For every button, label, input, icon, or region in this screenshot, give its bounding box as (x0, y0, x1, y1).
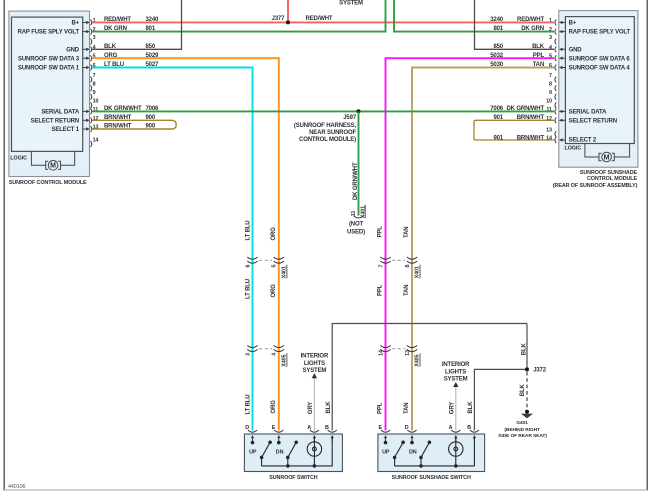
svg-text:NEAR SUNROOF: NEAR SUNROOF (309, 130, 356, 136)
svg-text:DK GRN/WHT: DK GRN/WHT (507, 106, 545, 112)
svg-text:11: 11 (351, 211, 357, 217)
switch S2 sunroof sunshade switch (378, 425, 485, 481)
sunshade control module pin numbers (546, 18, 552, 142)
wire BRN/WHT 900 jumper loop (left pin 12 SELECT RETURN to pin 13 SELECT 1) (92, 115, 176, 130)
svg-text:INTERIOR: INTERIOR (301, 353, 329, 359)
wire BLK vertical into J372 (521, 324, 527, 370)
svg-text:801: 801 (146, 26, 156, 32)
svg-text:SERIAL DATA: SERIAL DATA (569, 110, 608, 116)
svg-text:UP: UP (382, 450, 390, 456)
wire RED/WHT 3240 (B+ bus, left pin 1 to right pin 1) (92, 17, 554, 23)
sunroof control module pin arrows (83, 21, 90, 131)
svg-text:BLK: BLK (468, 401, 474, 414)
svg-text:RED/WHT: RED/WHT (517, 17, 544, 23)
svg-text:13: 13 (546, 127, 552, 133)
splice J377 (272, 16, 333, 24)
svg-text:LOGIC: LOGIC (565, 145, 582, 151)
wire TAN 5030 (right pin 6 SUNROOF SW DATA 4 down to sunshade switch pin D) (412, 62, 554, 430)
switch S1 sunroof switch UP contact and arm (251, 441, 272, 466)
wire BLK 850 right segment (from top down at x=474.5 to right pin 4) (475, 0, 555, 50)
svg-text:(NOT: (NOT (349, 222, 364, 228)
svg-text:LIGHTS: LIGHTS (445, 370, 466, 376)
svg-text:PPL: PPL (378, 226, 384, 238)
svg-text:8: 8 (93, 82, 96, 88)
connector X401 pin 11 (not used) (347, 205, 366, 236)
svg-text:9: 9 (93, 90, 96, 96)
svg-text:E: E (378, 425, 382, 431)
svg-text:SYSTEM: SYSTEM (303, 368, 327, 374)
connector X401 (pins 6,5) (245, 257, 287, 278)
svg-text:PPL: PPL (533, 53, 545, 59)
svg-text:5027: 5027 (146, 62, 160, 68)
svg-text:3240: 3240 (146, 17, 160, 23)
sunshade control module pins 1-14 (connector arcs) (555, 20, 556, 143)
svg-text:J597: J597 (343, 115, 357, 121)
svg-text:(SUNROOF HARNESS,: (SUNROOF HARNESS, (294, 123, 357, 129)
svg-text:SELECT 2: SELECT 2 (569, 138, 597, 144)
splice J597 (294, 109, 361, 142)
switch S1 sunroof switch (244, 425, 342, 481)
svg-text:M: M (604, 154, 610, 161)
svg-text:LIGHTS: LIGHTS (304, 361, 325, 367)
wire ORG 5029 (left pin 5 SUNROOF SW DATA 3 down to sunroof switch pin E) (92, 53, 279, 431)
svg-text:901: 901 (493, 115, 503, 121)
svg-text:7: 7 (549, 73, 552, 79)
svg-text:SYSTEM: SYSTEM (444, 377, 468, 383)
svg-text:10: 10 (546, 99, 552, 105)
svg-text:B: B (467, 425, 471, 431)
svg-text:BLK: BLK (104, 44, 117, 50)
svg-text:CONTROL MODULE: CONTROL MODULE (587, 176, 638, 182)
wire GRY to interior lights system (sunshade switch pin A) (442, 362, 470, 430)
svg-text:3: 3 (93, 35, 96, 41)
svg-text:SUNROOF CONTROL MODULE: SUNROOF CONTROL MODULE (9, 180, 87, 186)
connector X401 (pins 7,8) (378, 257, 420, 278)
svg-text:SIDE OF REAR SEAT): SIDE OF REAR SEAT) (498, 433, 547, 439)
svg-text:TAN: TAN (404, 227, 410, 238)
svg-text:B+: B+ (569, 21, 577, 27)
svg-text:3: 3 (549, 35, 552, 41)
svg-text:5032: 5032 (490, 53, 504, 59)
switch S1 sunroof switch DN contact and arm (277, 441, 298, 468)
svg-text:13: 13 (405, 350, 411, 356)
sunshade control module pin arrows (559, 21, 566, 142)
svg-text:GRY: GRY (308, 402, 314, 414)
svg-text:SUNROOF SWITCH: SUNROOF SWITCH (269, 475, 318, 481)
motor M1 (sunroof motor, in sunroof control module) (31, 151, 74, 170)
wire RED/WHT stub from J377 up to system (top of page) (287, 0, 289, 22)
svg-text:RAP FUSE SPLY VOLT: RAP FUSE SPLY VOLT (18, 30, 80, 36)
svg-text:DK GRN: DK GRN (104, 26, 127, 32)
sunroof sunshade control module U2 (553, 11, 638, 189)
wire BLK (sunroof switch pin B ground, up and over to J372) (326, 324, 527, 431)
svg-text:DK GRN: DK GRN (521, 26, 544, 32)
svg-text:DK GRN/WHT: DK GRN/WHT (353, 162, 359, 200)
wire GRY to interior lights system (sunroof switch pin A) (301, 353, 329, 430)
sunroof control module pin numbers (93, 18, 99, 143)
svg-text:TAN: TAN (404, 403, 410, 414)
svg-text:BRN/WHT: BRN/WHT (517, 135, 545, 141)
svg-text:BLK: BLK (326, 401, 332, 414)
svg-text:SYSTEM: SYSTEM (339, 0, 363, 6)
switch S1 sunroof switch internal ground bus (262, 437, 333, 466)
svg-text:(REAR OF SUNROOF ASSEMBLY): (REAR OF SUNROOF ASSEMBLY) (553, 183, 638, 189)
wire DK GRN/WHT 7006 serial data (left pin 11 to right pin 11) (92, 106, 554, 112)
svg-text:SUNROOF SW DATA 3: SUNROOF SW DATA 3 (18, 56, 80, 62)
svg-text:UP: UP (249, 450, 257, 456)
svg-text:SUNROOF SUNSHADE SWITCH: SUNROOF SUNSHADE SWITCH (392, 475, 471, 481)
svg-text:SERIAL DATA: SERIAL DATA (41, 110, 80, 116)
svg-text:SUNROOF SW DATA 1: SUNROOF SW DATA 1 (18, 66, 80, 72)
svg-text:RED/WHT: RED/WHT (104, 17, 131, 23)
connector X405 (pins 14,13) (378, 345, 420, 366)
svg-text:BRN/WHT: BRN/WHT (104, 124, 132, 130)
svg-text:B+: B+ (71, 21, 79, 27)
svg-text:PPL: PPL (378, 402, 384, 414)
svg-text:SELECT RETURN: SELECT RETURN (569, 118, 617, 124)
sunroof control module U1 (9, 11, 90, 186)
svg-text:3: 3 (245, 353, 251, 356)
svg-text:RED/WHT: RED/WHT (306, 16, 333, 22)
switch S2 sunroof sunshade switch illumination lamp (449, 437, 463, 468)
splice J372 (525, 367, 547, 373)
wire LT BLU 5027 (left pin 6 SUNROOF SW DATA 1 down to sunroof switch pin D) (92, 62, 252, 430)
svg-text:INTERIOR: INTERIOR (442, 362, 470, 368)
svg-text:J372: J372 (533, 368, 547, 374)
wire DK GRN 801 left segment (left pin 2, up at x=385.5 to top) (92, 0, 385, 32)
svg-text:801: 801 (493, 26, 503, 32)
svg-text:10: 10 (93, 99, 99, 105)
svg-text:G401: G401 (516, 420, 528, 426)
switch S2 sunroof sunshade switch UP contact and arm (384, 441, 405, 466)
wire DK GRN/WHT drop from J597 to X401 pin 11 (not used) (353, 111, 359, 215)
switch S1 sunroof switch illumination lamp (307, 437, 321, 468)
svg-text:E: E (272, 425, 276, 431)
svg-text:USED): USED) (347, 229, 365, 235)
svg-text:5030: 5030 (490, 62, 504, 68)
svg-text:LT BLU: LT BLU (246, 279, 252, 299)
svg-text:7006: 7006 (146, 106, 160, 112)
svg-text:J377: J377 (272, 16, 286, 22)
svg-text:ORG: ORG (271, 400, 277, 414)
svg-text:TAN: TAN (533, 62, 544, 68)
svg-text:LT BLU: LT BLU (246, 395, 252, 415)
svg-text:GRY: GRY (449, 402, 455, 414)
svg-text:5: 5 (272, 265, 278, 268)
svg-text:BLK: BLK (521, 343, 527, 356)
connector X405 (pins 3,4) (245, 345, 287, 366)
svg-text:4: 4 (272, 353, 278, 356)
svg-text:DN: DN (409, 450, 417, 456)
svg-text:440106: 440106 (8, 484, 25, 490)
svg-text:ORG: ORG (104, 53, 118, 59)
svg-text:3240: 3240 (490, 17, 504, 23)
svg-text:14: 14 (378, 350, 384, 356)
svg-text:BRN/WHT: BRN/WHT (104, 115, 132, 121)
switch S2 sunroof sunshade switch DN contact and arm (410, 441, 431, 468)
wire BLK 850 left segment (left pin 4 GND, up at x=181.5 to top) (92, 0, 181, 50)
ground G401 (498, 410, 547, 440)
svg-text:5029: 5029 (146, 53, 160, 59)
svg-text:850: 850 (493, 44, 503, 50)
svg-text:(BEHIND RIGHT: (BEHIND RIGHT (504, 427, 540, 433)
svg-text:901: 901 (493, 135, 503, 141)
svg-text:7: 7 (93, 73, 96, 79)
svg-text:14: 14 (93, 137, 99, 143)
svg-text:9: 9 (549, 90, 552, 96)
svg-text:D: D (405, 425, 409, 431)
svg-text:A: A (449, 425, 453, 431)
svg-text:RAP FUSE SPLY VOLT: RAP FUSE SPLY VOLT (569, 30, 631, 36)
sunroof control module pins 1-14 (connector arcs) (91, 20, 92, 147)
svg-text:A: A (307, 425, 311, 431)
svg-text:8: 8 (405, 265, 411, 268)
svg-text:DK GRN/WHT: DK GRN/WHT (104, 106, 142, 112)
svg-text:BRN/WHT: BRN/WHT (517, 115, 545, 121)
svg-text:SUNROOF SW DATA 6: SUNROOF SW DATA 6 (569, 56, 631, 62)
svg-text:ORG: ORG (271, 227, 277, 241)
svg-text:B: B (325, 425, 329, 431)
svg-text:SELECT 1: SELECT 1 (52, 127, 80, 133)
wire DK GRN 801 right segment (from top down at x=394 to right pin 2) (394, 0, 554, 32)
svg-text:BLK: BLK (520, 384, 526, 397)
svg-text:8: 8 (549, 82, 552, 88)
svg-text:7006: 7006 (490, 106, 504, 112)
svg-text:LT BLU: LT BLU (246, 221, 252, 241)
svg-text:GND: GND (66, 47, 80, 53)
svg-text:LOGIC: LOGIC (10, 156, 27, 162)
svg-text:TAN: TAN (404, 285, 410, 296)
svg-text:LT BLU: LT BLU (104, 62, 124, 68)
svg-text:CONTROL MODULE): CONTROL MODULE) (299, 137, 356, 143)
svg-text:BLK: BLK (532, 44, 545, 50)
svg-text:7: 7 (378, 265, 384, 268)
svg-text:ORG: ORG (271, 284, 277, 298)
wire PPL 5032 (right pin 5 SUNROOF SW DATA 6 down to sunshade switch pin E) (386, 53, 555, 431)
svg-text:6: 6 (245, 265, 251, 268)
wire BRN/WHT 901 jumper loop (right pin 12 SELECT RETURN to pin 14 SELECT 2) (474, 115, 554, 141)
svg-text:M: M (50, 163, 56, 170)
svg-text:D: D (245, 425, 249, 431)
svg-text:SUNROOF SW DATA 4: SUNROOF SW DATA 4 (569, 66, 631, 72)
svg-text:SELECT RETURN: SELECT RETURN (31, 118, 79, 124)
svg-text:900: 900 (146, 115, 156, 121)
svg-text:GND: GND (569, 47, 583, 53)
svg-text:PPL: PPL (378, 284, 384, 296)
svg-text:DN: DN (276, 450, 284, 456)
wire BLK (sunshade switch pin B ground to J372) (468, 369, 527, 430)
wire BLK dashed drop from J372 to ground G401 (520, 372, 527, 410)
svg-text:850: 850 (146, 44, 156, 50)
motor M2 (sunshade motor, in sunshade control module) (585, 144, 630, 162)
switch S2 sunroof sunshade switch internal ground bus (395, 437, 475, 466)
svg-text:900: 900 (146, 124, 156, 130)
